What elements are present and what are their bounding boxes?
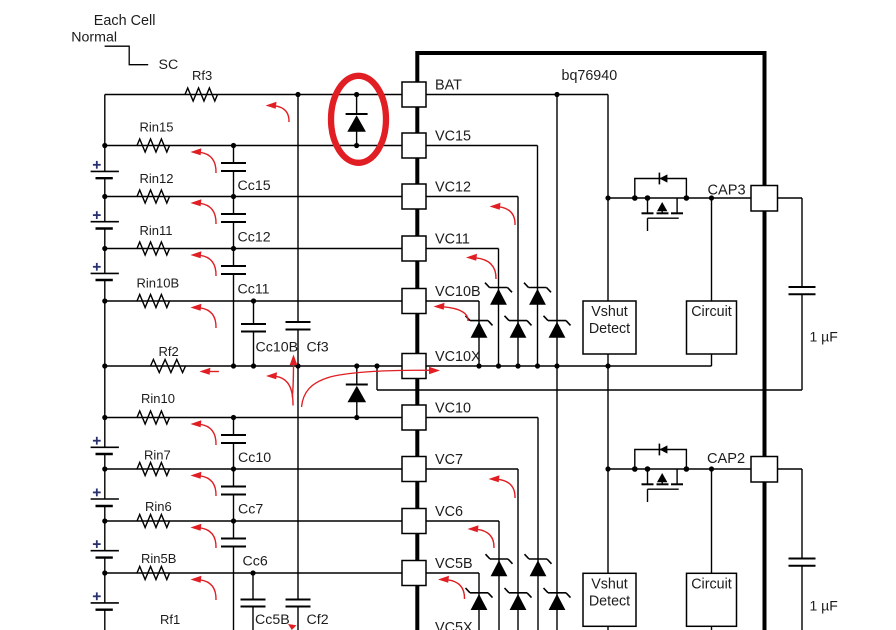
svg-text:1 µF: 1 µF <box>810 598 838 614</box>
svg-text:Cf2: Cf2 <box>307 612 329 628</box>
svg-text:Rin15: Rin15 <box>140 120 174 135</box>
svg-text:Vshut: Vshut <box>591 304 628 320</box>
svg-text:VC10: VC10 <box>435 401 471 417</box>
svg-text:Rin12: Rin12 <box>140 171 174 186</box>
svg-text:VC11: VC11 <box>435 232 470 248</box>
svg-text:Rf2: Rf2 <box>159 344 179 359</box>
svg-text:Normal: Normal <box>71 29 117 45</box>
svg-text:Rin7: Rin7 <box>144 448 171 463</box>
svg-text:Rin10: Rin10 <box>141 391 175 406</box>
svg-text:Cc7: Cc7 <box>238 502 263 518</box>
svg-text:Rin6: Rin6 <box>145 499 172 514</box>
svg-text:bq76940: bq76940 <box>562 68 618 84</box>
svg-text:Cc11: Cc11 <box>238 282 270 298</box>
svg-text:Cc5B: Cc5B <box>255 612 290 628</box>
svg-text:CAP3: CAP3 <box>708 183 746 199</box>
svg-text:Rin11: Rin11 <box>140 223 173 238</box>
svg-text:Vshut: Vshut <box>591 577 628 593</box>
svg-text:VC7: VC7 <box>435 452 463 468</box>
svg-text:Detect: Detect <box>589 321 630 337</box>
svg-text:VC5B: VC5B <box>435 556 473 572</box>
svg-text:CAP2: CAP2 <box>707 451 745 467</box>
svg-text:VC15: VC15 <box>435 129 471 145</box>
svg-text:VC12: VC12 <box>435 180 471 196</box>
svg-text:Cc10B: Cc10B <box>256 340 299 356</box>
svg-text:Each Cell: Each Cell <box>94 13 156 29</box>
svg-text:1 µF: 1 µF <box>810 329 838 345</box>
svg-text:VC10B: VC10B <box>435 284 481 300</box>
svg-text:Cc12: Cc12 <box>238 230 271 246</box>
svg-text:VC10X: VC10X <box>435 349 481 365</box>
svg-text:Rf1: Rf1 <box>160 612 180 627</box>
svg-text:SC: SC <box>159 57 179 73</box>
svg-text:Cf3: Cf3 <box>307 340 329 356</box>
svg-text:Cc15: Cc15 <box>238 178 271 194</box>
svg-text:Cc10: Cc10 <box>238 450 271 466</box>
svg-text:Circuit: Circuit <box>691 304 732 320</box>
svg-text:VC5X: VC5X <box>435 620 473 630</box>
svg-text:Circuit: Circuit <box>691 577 732 593</box>
svg-text:Detect: Detect <box>589 594 630 610</box>
svg-text:Rf3: Rf3 <box>192 68 212 83</box>
svg-text:VC6: VC6 <box>435 504 463 520</box>
svg-text:Cc6: Cc6 <box>243 554 268 570</box>
svg-text:Rin5B: Rin5B <box>141 551 176 566</box>
svg-text:BAT: BAT <box>435 78 462 94</box>
svg-text:Rin10B: Rin10B <box>137 276 180 291</box>
